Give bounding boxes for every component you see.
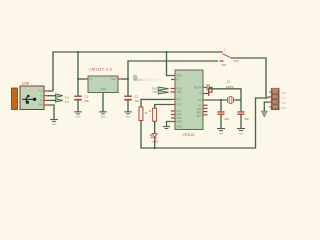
svg-text:RXD: RXD [281, 107, 286, 110]
svg-text:VCC: VCC [38, 90, 43, 93]
svg-text:D-N: D-N [65, 97, 69, 99]
svg-text:REGIN: REGIN [194, 86, 202, 89]
svg-text:CTS: CTS [177, 103, 182, 106]
svg-text:OUT: OUT [111, 78, 117, 81]
svg-text:GND: GND [76, 117, 81, 119]
svg-text:VCC: VCC [234, 59, 240, 63]
svg-text:RI: RI [177, 79, 180, 82]
svg-text:XO: XO [198, 99, 202, 102]
svg-text:GND: GND [126, 117, 131, 119]
svg-text:D-: D- [40, 94, 43, 97]
svg-text:D-P: D-P [65, 102, 69, 104]
svg-text:GND: GND [52, 124, 57, 126]
svg-text:GND: GND [281, 102, 287, 105]
svg-text:TXD: TXD [281, 92, 286, 95]
svg-text:LM1117-3.3: LM1117-3.3 [90, 67, 113, 71]
svg-text:LED1: LED1 [152, 141, 159, 144]
svg-text:22p: 22p [225, 117, 230, 121]
svg-text:3V3: 3V3 [222, 63, 227, 67]
svg-text:RTS: RTS [177, 98, 182, 101]
svg-text:GND: GND [177, 120, 183, 123]
svg-text:TXD: TXD [177, 91, 182, 94]
svg-text:TXD: TXD [152, 91, 157, 94]
svg-text:GND: GND [38, 104, 44, 107]
svg-text:GND: GND [239, 134, 244, 136]
svg-text:RST: RST [197, 115, 202, 118]
svg-text:12MHz: 12MHz [226, 86, 235, 89]
svg-text:GND: GND [101, 117, 106, 119]
svg-text:C1: C1 [85, 95, 89, 99]
svg-text:RXD: RXD [152, 87, 157, 90]
svg-text:DCD: DCD [177, 75, 182, 78]
svg-text:USB: USB [22, 81, 30, 85]
svg-text:22p: 22p [245, 117, 250, 121]
svg-text:XI: XI [199, 92, 202, 95]
svg-text:VCC: VCC [281, 97, 286, 100]
svg-text:C2: C2 [135, 95, 139, 99]
svg-text:GND: GND [219, 134, 224, 136]
svg-text:GND: GND [100, 88, 106, 91]
svg-text:GND: GND [177, 126, 183, 129]
svg-text:10u: 10u [85, 99, 90, 103]
svg-text:IN: IN [90, 78, 93, 81]
svg-text:CP2102: CP2102 [183, 133, 195, 137]
svg-text:10u: 10u [135, 99, 140, 103]
